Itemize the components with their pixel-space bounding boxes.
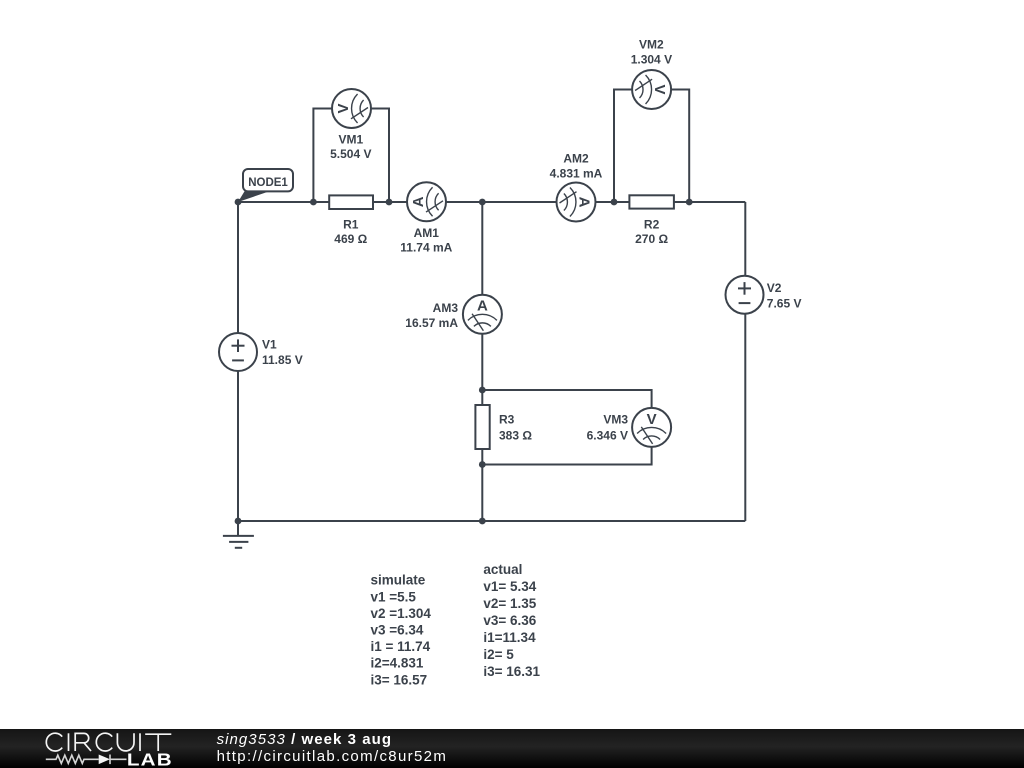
svg-text:A: A	[477, 298, 488, 315]
svg-text:i2= 5: i2= 5	[483, 647, 514, 662]
svg-text:sing3533 / week 3 aug: sing3533 / week 3 aug	[217, 731, 393, 748]
svg-text:i1=11.34: i1=11.34	[483, 630, 536, 645]
svg-text:i3= 16.31: i3= 16.31	[483, 664, 540, 679]
svg-text:R3: R3	[499, 413, 515, 427]
svg-text:5.504 V: 5.504 V	[330, 147, 371, 161]
svg-text:VM1: VM1	[338, 133, 363, 147]
svg-text:469 Ω: 469 Ω	[334, 232, 367, 246]
svg-text:i1 = 11.74: i1 = 11.74	[371, 639, 431, 654]
svg-text:A: A	[410, 196, 427, 207]
svg-text:http://circuitlab.com/c8ur52m: http://circuitlab.com/c8ur52m	[217, 748, 448, 765]
svg-text:V: V	[335, 103, 352, 113]
svg-text:V1: V1	[262, 337, 277, 351]
svg-text:11.85 V: 11.85 V	[262, 353, 303, 367]
svg-text:v2= 1.35: v2= 1.35	[483, 596, 536, 611]
svg-text:R1: R1	[343, 217, 359, 231]
svg-text:11.74 mA: 11.74 mA	[400, 240, 452, 254]
svg-text:AM3: AM3	[433, 301, 459, 315]
svg-text:16.57 mA: 16.57 mA	[405, 316, 458, 330]
svg-text:R2: R2	[644, 217, 660, 231]
svg-text:v3 =6.34: v3 =6.34	[371, 623, 424, 638]
svg-text:i3= 16.57: i3= 16.57	[371, 672, 428, 687]
svg-text:AM2: AM2	[563, 151, 589, 165]
svg-text:NODE1: NODE1	[248, 177, 288, 189]
svg-text:V: V	[651, 84, 668, 94]
svg-text:v1 =5.5: v1 =5.5	[371, 589, 417, 604]
svg-text:AM1: AM1	[414, 226, 440, 240]
svg-text:270 Ω: 270 Ω	[635, 232, 668, 246]
svg-text:7.65 V: 7.65 V	[767, 296, 802, 310]
svg-text:V2: V2	[767, 281, 782, 295]
svg-text:i2=4.831: i2=4.831	[371, 656, 424, 671]
svg-text:v1= 5.34: v1= 5.34	[483, 579, 536, 594]
svg-text:V: V	[647, 411, 657, 428]
svg-text:6.346 V: 6.346 V	[587, 429, 628, 443]
svg-text:A: A	[576, 197, 593, 208]
svg-text:4.831 mA: 4.831 mA	[550, 166, 603, 180]
svg-text:VM3: VM3	[603, 413, 628, 427]
svg-text:VM2: VM2	[639, 38, 664, 52]
svg-text:1.304 V: 1.304 V	[631, 52, 672, 66]
svg-text:LAB: LAB	[127, 751, 173, 768]
svg-text:383 Ω: 383 Ω	[499, 429, 532, 443]
svg-text:v2 =1.304: v2 =1.304	[371, 606, 432, 621]
svg-text:simulate: simulate	[371, 573, 426, 588]
svg-text:v3= 6.36: v3= 6.36	[483, 613, 536, 628]
svg-text:actual: actual	[483, 562, 522, 577]
